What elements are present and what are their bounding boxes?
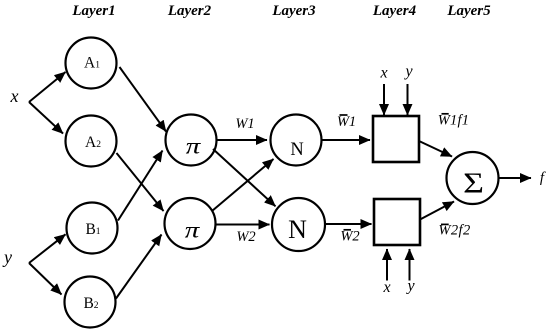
svg-text:N: N (290, 140, 303, 160)
node SQ2 (rule box 2) (374, 199, 420, 245)
wire x to A2 (29, 102, 63, 134)
wire x into SQ2 bottom (386, 249, 388, 281)
svg-text:x: x (382, 279, 390, 296)
svg-text:N: N (288, 215, 307, 244)
wire SQ2 to SUM (420, 202, 454, 220)
wire B1 to P1 (118, 151, 163, 221)
wire y into SQ1 top (407, 84, 409, 115)
svg-text:W1: W1 (235, 116, 254, 132)
wire P2 to N1 (212, 159, 274, 211)
node SUM (447, 152, 499, 204)
svg-text:y: y (2, 247, 12, 267)
svg-text:x: x (379, 65, 387, 82)
label W1f1 (438, 113, 469, 129)
svg-text:π: π (186, 134, 202, 159)
wire x to A1 (29, 72, 66, 102)
node B1 (67, 203, 118, 254)
svg-text:Layer4: Layer4 (372, 3, 417, 19)
node A2 (66, 116, 117, 167)
wire B2 to P2 (116, 235, 162, 299)
node B2 (65, 277, 116, 328)
wire x into SQ1 top (383, 84, 385, 115)
wire SQ1 to SUM (419, 141, 452, 157)
node SQ1 (rule box 1) (373, 116, 419, 162)
svg-text:Layer2: Layer2 (167, 3, 212, 19)
node A1 (66, 38, 117, 89)
svg-text:x: x (10, 86, 19, 106)
wire P2 to N2 (216, 224, 270, 226)
svg-text:W1f1: W1f1 (438, 113, 469, 129)
wire N1 to SQ1 (322, 139, 370, 141)
wire SUM to f (499, 177, 531, 179)
wire A2 to P2 (117, 153, 164, 211)
wire P1 to N2 (213, 149, 276, 206)
svg-text:Layer3: Layer3 (271, 3, 316, 19)
svg-text:Σ: Σ (463, 167, 484, 198)
svg-text:W2: W2 (236, 229, 255, 245)
wire P1 to N1 (217, 139, 268, 141)
svg-text:Layer5: Layer5 (446, 3, 491, 19)
svg-text:W1: W1 (337, 114, 356, 130)
node N1 (271, 115, 322, 166)
node P2 (product) (165, 198, 216, 249)
label W2f2 (438, 223, 470, 239)
wire y to B1 (29, 234, 66, 263)
svg-text:W2: W2 (340, 229, 359, 245)
node P1 (product) (166, 115, 217, 166)
label W1bar (337, 114, 356, 130)
svg-text:π: π (185, 218, 201, 243)
wire N2 to SQ2 (326, 223, 372, 225)
svg-text:y: y (403, 63, 413, 80)
wire y into SQ2 bottom (409, 249, 411, 281)
node N2 (272, 198, 325, 251)
label W2bar (340, 229, 359, 245)
wire y to B2 (29, 263, 62, 295)
wire A1 to P1 (120, 67, 167, 132)
svg-text:Layer1: Layer1 (71, 3, 115, 19)
